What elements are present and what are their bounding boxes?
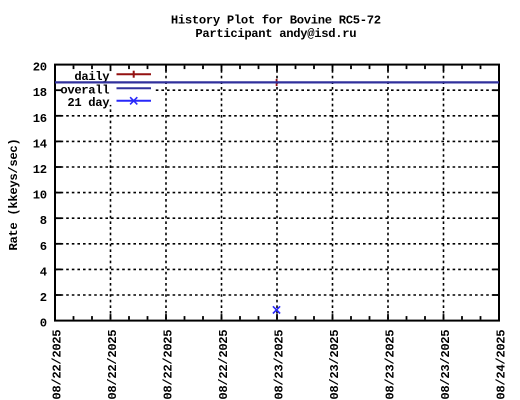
- svg-text:08/22/2025: 08/22/2025: [162, 330, 176, 400]
- svg-text:12: 12: [33, 163, 47, 177]
- legend background: [56, 66, 154, 105]
- svg-text:21 day: 21 day: [67, 96, 110, 110]
- plot border: [55, 65, 499, 321]
- svg-text:08/23/2025: 08/23/2025: [384, 330, 398, 400]
- svg-text:08/22/2025: 08/22/2025: [51, 330, 65, 400]
- svg-text:08/23/2025: 08/23/2025: [439, 330, 453, 400]
- svg-text:14: 14: [33, 137, 47, 151]
- svg-text:2: 2: [40, 291, 47, 305]
- svg-text:Participant andy@isd.ru: Participant andy@isd.ru: [195, 27, 356, 41]
- svg-text:4: 4: [40, 265, 47, 279]
- legend: daily sample line with plus marker: [117, 71, 152, 78]
- legend: 21 day sample line with x marker: [117, 97, 152, 104]
- svg-text:08/22/2025: 08/22/2025: [106, 330, 120, 400]
- svg-text:6: 6: [40, 240, 47, 254]
- legend: overall sample line: [117, 87, 152, 89]
- svg-text:16: 16: [33, 112, 47, 126]
- data: daily point marker (plus) at 08/23: [276, 79, 278, 86]
- axis ticks: [56, 66, 498, 320]
- data: overall average line: [55, 81, 499, 83]
- svg-text:08/23/2025: 08/23/2025: [273, 330, 287, 400]
- svg-text:08/24/2025: 08/24/2025: [495, 330, 509, 400]
- svg-text:Rate (kkeys/sec): Rate (kkeys/sec): [7, 139, 21, 251]
- svg-text:8: 8: [40, 214, 47, 228]
- svg-text:18: 18: [33, 86, 47, 100]
- svg-text:08/23/2025: 08/23/2025: [328, 330, 342, 400]
- svg-text:20: 20: [33, 61, 47, 75]
- svg-text:0: 0: [40, 317, 47, 331]
- svg-text:08/22/2025: 08/22/2025: [217, 330, 231, 400]
- svg-text:History Plot for Bovine RC5-72: History Plot for Bovine RC5-72: [171, 14, 381, 28]
- data: 21 day point marker (x) at 08/23: [273, 306, 280, 313]
- svg-text:10: 10: [33, 189, 47, 203]
